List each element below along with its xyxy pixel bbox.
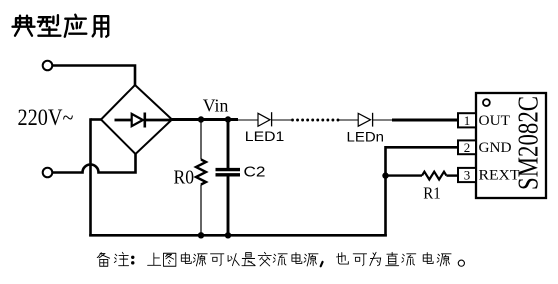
LED1 diode	[258, 112, 272, 126]
svg-text:Vin: Vin	[203, 96, 229, 116]
title char 应	[65, 15, 87, 37]
svg-text:2: 2	[464, 140, 471, 155]
note char 可	[211, 254, 224, 266]
svg-text:C2: C2	[244, 165, 266, 181]
junction dot R0/bottom rail	[198, 232, 204, 238]
pin-1 indicator circle	[483, 99, 490, 106]
pin 3 box	[458, 168, 476, 182]
pin 1 box	[458, 113, 476, 127]
note char 源	[437, 254, 451, 266]
wire bridge left vertex stub	[91, 118, 102, 121]
wire C2 top lead	[227, 118, 230, 168]
svg-text:LED1: LED1	[245, 128, 285, 144]
title char 用	[93, 16, 109, 37]
wire R0 bottom lead	[200, 185, 202, 236]
svg-text:LEDn: LEDn	[347, 129, 385, 145]
note char 源	[193, 254, 207, 266]
svg-text:1: 1	[464, 113, 471, 128]
note char 流	[273, 254, 287, 265]
wire Vin bus to LED1	[238, 119, 258, 121]
capacitor C2	[216, 170, 241, 175]
svg-text:SM2082C: SM2082C	[513, 96, 544, 190]
svg-text:GND: GND	[479, 140, 512, 156]
resistor R0	[196, 160, 206, 185]
svg-text:OUT: OUT	[479, 113, 511, 129]
wire LEDn to OUT pin	[373, 119, 392, 121]
wire bottom ground rail	[89, 234, 387, 237]
note char 上	[148, 253, 161, 265]
note char 是	[242, 253, 255, 266]
note char 图	[163, 253, 175, 266]
title char 型	[38, 15, 61, 36]
svg-text:3: 3	[464, 168, 471, 183]
svg-text:R1: R1	[423, 183, 441, 202]
bridge diode D1	[115, 113, 172, 128]
resistor R1	[422, 172, 446, 180]
note char ：	[131, 256, 134, 265]
note char 注	[114, 252, 128, 265]
wire left rail down	[89, 118, 92, 236]
note char 电	[423, 253, 433, 264]
wire LED1 to dots	[272, 119, 291, 121]
svg-text:R0: R0	[174, 167, 195, 189]
junction dot REXT rail	[382, 172, 388, 178]
note char 也	[337, 253, 349, 264]
dotted continuation (LED string ellipsis)	[291, 119, 339, 122]
op IC U1 SM2082C body	[476, 93, 546, 198]
junction dot Vin/R0	[198, 116, 204, 122]
wire rail to R1	[386, 174, 423, 176]
LEDn diode	[358, 113, 372, 127]
pin 2 box	[458, 140, 476, 154]
note char 源	[304, 254, 318, 266]
wire R0 top lead	[200, 120, 202, 160]
wire T1 to bridge top	[52, 66, 135, 86]
note char 电	[181, 253, 191, 264]
junction dot Vin/C2	[225, 116, 231, 122]
note char ，	[321, 262, 323, 266]
note char 可	[353, 254, 366, 266]
terminal T1 (AC input top)	[43, 61, 53, 71]
title char 典	[13, 16, 35, 36]
svg-text:220V~: 220V~	[18, 105, 74, 130]
note char 。	[458, 260, 464, 266]
wire dots to LEDn	[338, 119, 358, 121]
wire Vin bus	[172, 118, 238, 121]
bridge rectifier diamond	[101, 85, 172, 154]
note char 以	[228, 254, 239, 266]
note char 流	[402, 254, 416, 265]
junction dot C2/bottom rail	[225, 232, 231, 238]
terminal T2 (AC input bottom)	[43, 168, 53, 178]
wire R1 to REXT pin	[446, 174, 458, 176]
note char 电	[292, 253, 302, 264]
note char 交	[258, 252, 271, 266]
wire T2 toward bridge bottom with crossover hop	[52, 154, 135, 173]
wire C2 bottom lead	[227, 177, 230, 236]
note char 直	[386, 252, 399, 265]
note char 为	[370, 252, 381, 265]
note char 备	[97, 253, 109, 267]
wire GND pin to right rail	[386, 147, 459, 236]
